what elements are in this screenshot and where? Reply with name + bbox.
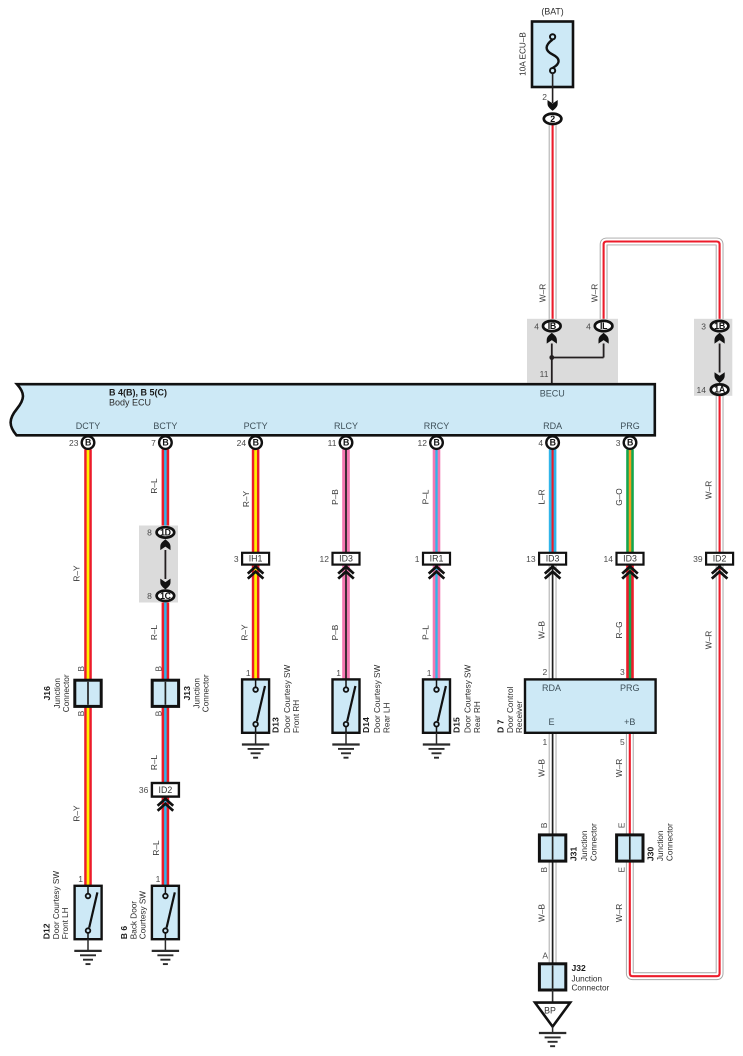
svg-text:E: E bbox=[616, 822, 626, 828]
svg-text:D 7: D 7 bbox=[496, 719, 506, 733]
svg-text:12: 12 bbox=[320, 554, 330, 564]
svg-text:E: E bbox=[616, 867, 626, 873]
connector box ID3 pin 13 bbox=[526, 553, 566, 565]
wire W-B ID3(13) to D7 RDA bbox=[549, 565, 557, 680]
arrow up into 1B bbox=[715, 333, 725, 344]
svg-text:B: B bbox=[154, 710, 164, 716]
svg-text:3: 3 bbox=[620, 667, 625, 677]
wire P-B ID3(12) to D14 bbox=[342, 565, 350, 680]
connector box IH1 pin 3 bbox=[234, 553, 269, 565]
svg-text:BP: BP bbox=[544, 1005, 556, 1015]
svg-text:R–L: R–L bbox=[149, 755, 159, 771]
svg-text:Connector: Connector bbox=[665, 823, 674, 861]
svg-text:J32: J32 bbox=[572, 963, 587, 973]
wire J32 to BP bbox=[552, 990, 554, 1003]
svg-text:8: 8 bbox=[147, 528, 152, 538]
svg-text:1C: 1C bbox=[160, 591, 172, 601]
connector box ID2 pin 39 bbox=[693, 553, 733, 565]
svg-text:RDA: RDA bbox=[542, 683, 561, 693]
arrow down into 1A bbox=[715, 372, 725, 383]
svg-text:4: 4 bbox=[534, 321, 539, 331]
svg-text:Connector: Connector bbox=[589, 823, 598, 861]
svg-text:RDA: RDA bbox=[543, 421, 562, 431]
svg-text:ID3: ID3 bbox=[623, 554, 637, 564]
svg-text:Rear LH: Rear LH bbox=[383, 702, 392, 733]
ground at BP bbox=[552, 1027, 554, 1033]
svg-text:R–L: R–L bbox=[151, 840, 161, 856]
svg-text:E: E bbox=[548, 717, 554, 727]
fuse 10A ECU-B bbox=[519, 7, 574, 88]
svg-text:ID3: ID3 bbox=[339, 554, 353, 564]
connector oval IB pin 4 bbox=[534, 321, 560, 332]
svg-text:5: 5 bbox=[620, 737, 625, 747]
svg-text:R–Y: R–Y bbox=[240, 624, 250, 641]
svg-text:D15: D15 bbox=[451, 717, 461, 733]
svg-text:Connector: Connector bbox=[202, 674, 211, 712]
svg-text:J30: J30 bbox=[646, 847, 656, 862]
svg-text:P–L: P–L bbox=[421, 489, 431, 504]
svg-text:W–R: W–R bbox=[589, 284, 599, 302]
svg-text:2: 2 bbox=[542, 92, 547, 102]
svg-text:ID2: ID2 bbox=[713, 554, 727, 564]
svg-text:J13: J13 bbox=[182, 686, 192, 701]
svg-text:14: 14 bbox=[697, 385, 707, 395]
svg-text:R–G: R–G bbox=[614, 621, 624, 638]
junction connector J13 bbox=[152, 666, 211, 717]
svg-text:Door Courtesy SW: Door Courtesy SW bbox=[464, 664, 473, 733]
wire R-L ID2(36) to B6 bbox=[162, 797, 170, 886]
junction connector J32 bbox=[539, 951, 565, 991]
svg-text:B: B bbox=[343, 438, 349, 448]
svg-text:Junction: Junction bbox=[572, 974, 603, 983]
wire R-Y PCTY to IH1 bbox=[252, 449, 260, 552]
svg-text:Rear RH: Rear RH bbox=[473, 701, 482, 733]
wire P-L IR1 to D15 bbox=[433, 565, 441, 680]
wire R-Y DCTY to J16 bbox=[84, 449, 92, 681]
svg-text:W–R: W–R bbox=[538, 284, 548, 302]
svg-text:R–L: R–L bbox=[149, 625, 159, 641]
svg-text:B: B bbox=[154, 666, 164, 672]
svg-text:Front LH: Front LH bbox=[61, 907, 70, 939]
door courtesy switch D14 Rear LH bbox=[333, 668, 360, 733]
svg-text:ID3: ID3 bbox=[546, 554, 560, 564]
svg-text:Door Courtesy SW: Door Courtesy SW bbox=[373, 664, 382, 733]
svg-text:J31: J31 bbox=[569, 847, 579, 862]
door courtesy switch D12 Front LH bbox=[75, 874, 102, 939]
svg-text:P–L: P–L bbox=[421, 625, 431, 640]
svg-text:W–R: W–R bbox=[614, 759, 624, 777]
svg-text:RRCY: RRCY bbox=[424, 421, 450, 431]
arrow up into IB bbox=[547, 333, 557, 344]
wire W-R 1A to ID2(39) bbox=[716, 396, 724, 553]
svg-text:10A ECU–B: 10A ECU–B bbox=[519, 32, 528, 76]
svg-text:D13: D13 bbox=[271, 717, 281, 733]
svg-text:3: 3 bbox=[616, 438, 621, 448]
svg-text:BCTY: BCTY bbox=[153, 421, 177, 431]
svg-text:Door Courtesy SW: Door Courtesy SW bbox=[52, 871, 61, 940]
svg-text:W–R: W–R bbox=[614, 904, 624, 922]
svg-text:Junction: Junction bbox=[53, 678, 62, 709]
back door courtesy switch B6 bbox=[152, 874, 179, 939]
wire R-L BCTY to 1D bbox=[162, 449, 170, 526]
wire R-L 1C to J13 bbox=[162, 602, 170, 681]
svg-text:B 6: B 6 bbox=[119, 926, 129, 940]
wire stubs at chevron arrows bbox=[165, 565, 719, 801]
svg-text:IR1: IR1 bbox=[430, 554, 444, 564]
svg-text:J16: J16 bbox=[42, 686, 52, 701]
terminal B pin 11 (RLCY) bbox=[328, 436, 353, 449]
wire between 1D and 1C bbox=[164, 550, 166, 579]
svg-text:Body ECU: Body ECU bbox=[109, 397, 151, 407]
door courtesy switch D15 Rear RH bbox=[423, 668, 450, 733]
terminal B pin 24 (PCTY) bbox=[237, 436, 262, 449]
connector oval 2 bbox=[544, 114, 562, 124]
svg-text:G–O: G–O bbox=[614, 488, 624, 506]
svg-text:DCTY: DCTY bbox=[76, 421, 101, 431]
svg-text:Receiver: Receiver bbox=[515, 700, 524, 733]
svg-text:R–L: R–L bbox=[149, 478, 159, 494]
svg-text:B: B bbox=[85, 438, 91, 448]
door control receiver D7 bbox=[525, 667, 656, 747]
svg-text:Door Courtesy SW: Door Courtesy SW bbox=[283, 664, 292, 733]
ground at D12 bbox=[87, 939, 89, 951]
svg-text:PRG: PRG bbox=[620, 683, 640, 693]
ground point BP triangle bbox=[535, 1003, 570, 1027]
svg-text:1B: 1B bbox=[714, 321, 725, 331]
svg-text:R–Y: R–Y bbox=[72, 565, 82, 582]
arrow down to connector 2 bbox=[548, 100, 558, 111]
svg-text:P–B: P–B bbox=[330, 489, 340, 505]
svg-text:D12: D12 bbox=[42, 923, 52, 939]
wire R-Y IH1 to D13 bbox=[252, 565, 260, 680]
svg-text:1: 1 bbox=[78, 874, 83, 884]
svg-text:36: 36 bbox=[139, 785, 149, 795]
svg-text:B: B bbox=[627, 438, 633, 448]
svg-text:7: 7 bbox=[151, 438, 156, 448]
arrow up into IL bbox=[599, 333, 609, 344]
svg-text:Connector: Connector bbox=[62, 674, 71, 712]
svg-text:B: B bbox=[253, 438, 259, 448]
svg-text:L–R: L–R bbox=[537, 489, 547, 504]
svg-text:Junction: Junction bbox=[192, 678, 201, 709]
svg-text:1A: 1A bbox=[714, 385, 726, 395]
svg-text:1D: 1D bbox=[160, 527, 171, 537]
svg-text:3: 3 bbox=[701, 321, 706, 331]
svg-text:B: B bbox=[76, 666, 86, 672]
wire fuse to arrow bbox=[552, 73, 554, 103]
connector box ID3 pin 12 bbox=[320, 553, 360, 565]
wire W-B D7 E to J31 bbox=[549, 733, 557, 836]
svg-text:RLCY: RLCY bbox=[334, 421, 358, 431]
ground at D13 bbox=[255, 733, 257, 745]
svg-text:B: B bbox=[550, 438, 556, 448]
gray connector block 1B/1A bbox=[694, 319, 732, 396]
wire P-L RRCY to IR1 bbox=[433, 449, 441, 552]
svg-text:2: 2 bbox=[550, 114, 555, 124]
svg-text:B: B bbox=[162, 438, 168, 448]
svg-text:B: B bbox=[433, 438, 439, 448]
wire P-B RLCY to ID3(12) bbox=[342, 449, 350, 552]
svg-text:Junction: Junction bbox=[656, 830, 665, 861]
svg-text:IL: IL bbox=[600, 321, 608, 331]
svg-text:PRG: PRG bbox=[620, 421, 640, 431]
svg-text:1: 1 bbox=[336, 668, 341, 678]
svg-text:4: 4 bbox=[538, 438, 543, 448]
svg-text:Courtesy SW: Courtesy SW bbox=[139, 891, 148, 939]
svg-text:W–B: W–B bbox=[537, 621, 547, 639]
svg-text:3: 3 bbox=[234, 554, 239, 564]
svg-text:B: B bbox=[76, 710, 86, 716]
svg-text:R–Y: R–Y bbox=[72, 805, 82, 822]
wire W-R fuse to IB bbox=[549, 124, 557, 320]
svg-text:W–B: W–B bbox=[537, 759, 547, 777]
svg-text:2: 2 bbox=[542, 667, 547, 677]
connector box ID2 pin 36 bbox=[139, 783, 179, 797]
connector oval 1C pin 8 bbox=[147, 591, 174, 602]
svg-text:12: 12 bbox=[418, 438, 428, 448]
wire G-O PRG to ID3(14) bbox=[626, 449, 634, 552]
svg-text:(BAT): (BAT) bbox=[541, 7, 563, 17]
connector oval 1D pin 8 bbox=[147, 527, 174, 538]
svg-text:W–B: W–B bbox=[537, 904, 547, 922]
svg-text:PCTY: PCTY bbox=[244, 421, 268, 431]
svg-text:1: 1 bbox=[156, 874, 161, 884]
svg-text:39: 39 bbox=[693, 554, 703, 564]
svg-text:B: B bbox=[539, 822, 549, 828]
terminal B pin 3 (PRG) bbox=[616, 436, 637, 449]
svg-text:W–R: W–R bbox=[704, 481, 714, 499]
svg-text:13: 13 bbox=[526, 554, 536, 564]
svg-text:Junction: Junction bbox=[580, 830, 589, 861]
gray connector block IB/IL bbox=[527, 319, 618, 383]
junction connector J16 bbox=[42, 666, 101, 717]
terminal B pin 7 (BCTY) bbox=[151, 436, 172, 449]
svg-text:24: 24 bbox=[237, 438, 247, 448]
terminal B pin 4 (RDA) bbox=[538, 436, 559, 449]
gray connector block 1D/1C bbox=[139, 526, 178, 603]
junction connector J31 bbox=[539, 822, 566, 872]
svg-text:IB: IB bbox=[548, 321, 556, 331]
svg-text:14: 14 bbox=[604, 554, 614, 564]
svg-text:B: B bbox=[539, 867, 549, 873]
arrow down into 1C bbox=[160, 579, 170, 590]
connector oval IL pin 4 bbox=[586, 321, 612, 332]
ground at D15 bbox=[436, 733, 438, 745]
svg-text:Back Door: Back Door bbox=[129, 901, 138, 939]
svg-text:8: 8 bbox=[147, 591, 152, 601]
wire R-G ID3(14) to D7 PRG bbox=[626, 565, 634, 680]
junction connector J30 bbox=[616, 822, 643, 872]
connector box IR1 pin 1 bbox=[415, 553, 450, 565]
wire R-Y J16 to D12 bbox=[84, 706, 92, 886]
svg-text:1: 1 bbox=[415, 554, 420, 564]
arrow up into 1D bbox=[160, 539, 170, 550]
svg-text:+B: +B bbox=[624, 717, 635, 727]
svg-text:A: A bbox=[542, 951, 548, 961]
wire W-R ID2(39) down around to J30 and +B of D7 bbox=[630, 565, 720, 977]
svg-text:1: 1 bbox=[542, 737, 547, 747]
svg-text:Front RH: Front RH bbox=[292, 700, 301, 733]
wire L-R RDA to ID3(13) bbox=[549, 449, 557, 552]
ground at D14 bbox=[345, 733, 347, 745]
svg-text:IH1: IH1 bbox=[249, 554, 263, 564]
wire R-L J13 to ID2(36) bbox=[162, 706, 170, 783]
connector oval 1A pin 14 bbox=[697, 384, 729, 395]
svg-text:B 4(B), B 5(C): B 4(B), B 5(C) bbox=[109, 387, 167, 397]
door courtesy switch D13 Front RH bbox=[242, 668, 269, 733]
svg-text:Connector: Connector bbox=[572, 984, 610, 993]
svg-text:23: 23 bbox=[69, 438, 79, 448]
body ECU box B4(B) B5(C) bbox=[11, 384, 655, 435]
svg-text:4: 4 bbox=[586, 321, 591, 331]
svg-text:1: 1 bbox=[427, 668, 432, 678]
connector box ID3 pin 14 bbox=[604, 553, 644, 565]
terminal B pin 12 (RRCY) bbox=[418, 436, 443, 449]
svg-text:1: 1 bbox=[246, 668, 251, 678]
terminal B pin 23 (DCTY) bbox=[69, 436, 94, 449]
svg-text:11: 11 bbox=[540, 369, 549, 379]
svg-text:W–R: W–R bbox=[704, 631, 714, 649]
wire W-R from IL up over to 1B bbox=[604, 242, 720, 320]
node junction 11 net bbox=[552, 344, 604, 384]
wire between 1B and 1A bbox=[719, 344, 721, 373]
ground at B6 bbox=[164, 939, 166, 951]
svg-text:D14: D14 bbox=[361, 717, 371, 733]
svg-text:BECU: BECU bbox=[540, 389, 565, 399]
svg-text:R–Y: R–Y bbox=[241, 490, 251, 507]
svg-text:P–B: P–B bbox=[330, 624, 340, 640]
svg-text:Door Control: Door Control bbox=[506, 686, 515, 733]
svg-text:ID2: ID2 bbox=[159, 785, 173, 795]
wire W-B J31 to J32 bbox=[549, 861, 557, 965]
svg-text:11: 11 bbox=[328, 438, 337, 448]
connector oval 1B pin 3 bbox=[701, 321, 728, 332]
